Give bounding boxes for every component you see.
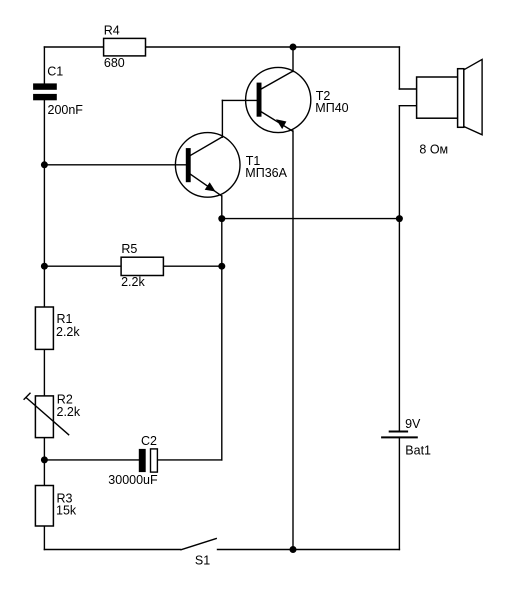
resistor R2 (preset) <box>24 393 81 438</box>
wire bottom (switch S1 to bottom-right corner) <box>218 549 400 551</box>
wire speaker lower stub <box>399 105 416 107</box>
wire T1 emitter vertical down to C2 branch <box>221 196 223 460</box>
wire left vertical R2 to R3 <box>43 438 45 486</box>
wire middle horizontal (T1 emitter to right rail) <box>222 218 400 220</box>
svg-text:9V: 9V <box>405 417 421 431</box>
svg-text:2.2k: 2.2k <box>57 405 81 419</box>
wire right vertical (battery to bottom corner) <box>398 437 400 549</box>
node R5 / emitter branch <box>218 263 225 270</box>
svg-text:Bat1: Bat1 <box>405 443 431 457</box>
svg-text:C1: C1 <box>47 65 63 79</box>
wire C2 left connection <box>44 459 138 461</box>
wire left vertical R3 to bottom corner <box>43 526 45 550</box>
capacitor C1 <box>33 65 83 118</box>
svg-text:S1: S1 <box>195 553 210 567</box>
transistor T2 МП40 <box>246 67 349 132</box>
wire T2 emitter diagonal <box>261 112 292 131</box>
resistor R4 <box>104 24 146 70</box>
switch S1 <box>180 538 217 567</box>
node T1 emitter / middle wire <box>218 215 225 222</box>
wire C2 right connection <box>157 459 221 461</box>
svg-text:680: 680 <box>104 56 125 70</box>
svg-text:МП36А: МП36А <box>245 166 287 180</box>
svg-text:R5: R5 <box>121 242 137 256</box>
node left rail / C2 <box>41 456 48 463</box>
svg-text:C2: C2 <box>141 434 157 448</box>
node middle wire / right rail <box>396 215 403 222</box>
speaker 8 Ом <box>417 59 483 156</box>
node left rail / T1 base <box>41 161 48 168</box>
wire top (R4 to top-right corner) <box>146 46 400 48</box>
svg-text:2.2k: 2.2k <box>121 275 145 289</box>
svg-text:200nF: 200nF <box>48 103 84 117</box>
svg-text:15k: 15k <box>56 503 77 517</box>
wire top left (C1 top to R4) <box>44 46 103 48</box>
wire left vertical R1 to R2 <box>43 349 45 396</box>
wire T1 emitter diagonal <box>191 174 222 196</box>
wire right vertical (speaker to battery) <box>398 106 400 432</box>
wire bottom (left to switch S1) <box>44 549 180 551</box>
wire speaker upper stub <box>399 88 416 90</box>
wire right vertical (top corner to speaker) <box>398 47 400 89</box>
svg-text:2.2k: 2.2k <box>56 325 80 339</box>
resistor R3 <box>35 486 77 527</box>
svg-text:8 Ом: 8 Ом <box>419 142 448 156</box>
node top rail / T2 collector <box>290 44 297 51</box>
resistor R1 <box>35 307 80 349</box>
svg-text:МП40: МП40 <box>315 101 348 115</box>
svg-text:R4: R4 <box>104 24 120 38</box>
battery Bat1 9V <box>381 417 431 457</box>
wire T1 base <box>44 164 185 166</box>
capacitor C2 (electrolytic) <box>108 434 158 487</box>
wire left vertical C1 to R1 <box>43 100 45 307</box>
svg-text:30000uF: 30000uF <box>108 473 158 487</box>
wire left vertical C1 top <box>43 47 45 83</box>
wire T2 collector diagonal <box>261 72 292 89</box>
wire T2 emitter vertical to bottom rail <box>292 131 294 550</box>
wire T1 collector to T2 base <box>222 99 256 101</box>
wire T2 collector vertical to top rail <box>292 47 294 72</box>
transistor T1 МП36А <box>175 133 287 198</box>
node bottom rail / T2 emitter <box>290 546 297 553</box>
wire T1 collector vertical <box>221 100 223 137</box>
resistor R5 <box>44 242 221 289</box>
node left rail / R5 <box>41 263 48 270</box>
wire T1 collector diagonal <box>191 137 222 155</box>
